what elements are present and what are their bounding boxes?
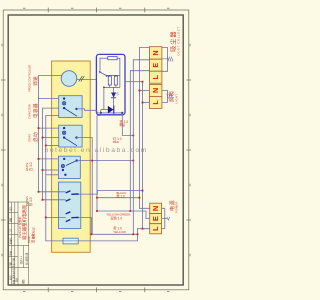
svg-text:E: E <box>151 216 160 221</box>
svg-text:L: L <box>151 226 160 231</box>
wire black lower segment <box>97 197 139 199</box>
zone dash left b <box>1 114 3 117</box>
switch S2 (on PCB) <box>99 71 101 73</box>
relay K2 (speed tap switch 2) <box>59 125 82 147</box>
junction dot fuse riser <box>137 233 139 235</box>
junction dot yg left <box>96 210 98 212</box>
zone divider right 1 <box>186 79 191 81</box>
svg-text:调速: 调速 <box>32 76 39 86</box>
svg-text:hotebei.en.alibaba.com: hotebei.en.alibaba.com <box>45 147 148 154</box>
stub relay2 low <box>46 145 59 147</box>
svg-text:白 1.0: 白 1.0 <box>28 162 33 171</box>
zone dash bottom d <box>167 291 170 293</box>
zone divider right 2 <box>186 149 191 151</box>
zone dash left d <box>1 254 3 256</box>
stub relay3 top <box>39 158 59 160</box>
junction dot switch stub1 <box>38 191 40 193</box>
sheet background <box>0 0 193 300</box>
outer border frame <box>3 10 189 290</box>
junction dot yg mid <box>129 210 131 212</box>
svg-text:L: L <box>151 74 160 79</box>
zone divider bottom 3 <box>144 287 146 292</box>
stub relay1 top <box>39 98 59 100</box>
junction dot pole2/W3 <box>45 217 47 219</box>
zone dash top d <box>167 7 170 9</box>
wire switch pole1 to mains N (BLACK) <box>78 191 143 195</box>
svg-text:启动: 启动 <box>32 132 39 142</box>
svg-text:共1张第1张: 共1张第1张 <box>24 252 28 265</box>
junction dot left 1 <box>38 127 40 129</box>
cord squiggle <box>167 217 170 220</box>
svg-text:吸尘器整机电路图: 吸尘器整机电路图 <box>21 204 28 240</box>
wire bottom rail of resistors <box>104 75 120 87</box>
zone dash bottom c <box>119 291 122 293</box>
wire N1 down bus <box>139 48 149 209</box>
PCB terminal P1 (bottom left) <box>100 112 102 114</box>
relay K3 (start switch) <box>58 156 80 178</box>
earth symbol J1 <box>162 57 173 62</box>
label wire blue2 <box>27 234 35 243</box>
socket bracket J1 <box>162 48 168 72</box>
relay K1 (speed tap switch 1) <box>59 96 82 118</box>
zone dash bottom a <box>23 291 26 293</box>
junction dot relay3 wire <box>91 160 93 162</box>
terminal block J3 (power input) <box>150 203 162 234</box>
earth symbol J2 <box>167 94 173 99</box>
zone dash right c <box>189 184 191 187</box>
junction dot bus B <box>132 135 134 137</box>
svg-text:SPEED CONTROLLER: SPEED CONTROLLER <box>28 65 32 92</box>
label dust collector <box>169 26 180 55</box>
terminal block J1 (dust collector socket) <box>149 47 162 83</box>
svg-text:ZW12-25 型整机: ZW12-25 型整机 <box>17 217 22 238</box>
LED D1 <box>111 93 116 98</box>
svg-text:LIGHT: LIGHT <box>174 94 178 104</box>
resistor R3 (vertical) <box>114 76 117 85</box>
junction dot switch-out <box>142 190 144 192</box>
junction dot left 5 <box>45 145 47 147</box>
wire yellow-green to E <box>97 211 150 219</box>
zone dash right b <box>189 114 191 117</box>
svg-text:RED: RED <box>113 140 119 144</box>
wire PCB left leg down <box>97 113 101 211</box>
PCB terminal P2 (bottom right) <box>121 112 123 114</box>
title block table <box>8 202 29 285</box>
label wire white <box>25 162 33 171</box>
svg-text:双色 1.0: 双色 1.0 <box>111 215 123 220</box>
svg-text:电容器: 电容器 <box>32 103 39 118</box>
svg-text:E: E <box>151 63 160 68</box>
junction dot N2 <box>139 90 141 92</box>
wire relay2 out <box>77 138 93 235</box>
label power <box>169 200 179 213</box>
junction dot L2 <box>142 102 144 104</box>
stub relay2 top <box>39 127 59 129</box>
junction dot black right <box>139 197 141 199</box>
junction dot on PCB <box>103 86 105 88</box>
wire N2 stub <box>139 90 149 92</box>
label start <box>28 132 39 142</box>
junction dot relay3-busB <box>132 160 134 162</box>
junction dot PCB stub <box>142 81 144 83</box>
resistor R2 (vertical) <box>108 76 111 85</box>
wire L bus down <box>143 82 150 229</box>
wire PCB stub to bus <box>128 81 143 83</box>
stub relay2 mid <box>43 137 59 139</box>
label light <box>170 91 179 104</box>
wire PCB bottom rail <box>101 110 123 113</box>
wire R1 leads <box>100 58 120 75</box>
inner border frame <box>8 15 183 285</box>
wire relay3 out <box>77 160 134 162</box>
svg-text:制速: 制速 <box>120 123 126 127</box>
junction dot pole2-yellow <box>91 233 93 235</box>
wire switch pole2 down <box>78 217 91 234</box>
wire LED feed <box>113 87 115 92</box>
junction dot L stub <box>142 228 144 230</box>
triac Q1 <box>108 106 114 114</box>
zone divider left 1 <box>1 79 6 81</box>
wire relay1 to PCB <box>77 109 101 113</box>
zone divider right 3 <box>186 219 191 221</box>
zone divider top 3 <box>144 8 146 13</box>
zone dash top c <box>119 7 122 9</box>
zone divider left 2 <box>1 149 6 151</box>
svg-text:图样标记: 图样标记 <box>31 227 36 239</box>
wire right bus B (E1 down) <box>133 60 149 235</box>
stub relay3 low <box>46 174 59 176</box>
svg-text:POWER: POWER <box>175 201 179 213</box>
wire fuse out to L <box>78 229 142 241</box>
zone divider bottom 2 <box>96 287 98 292</box>
resistor R1 (top, horizontal) <box>108 57 117 60</box>
zone dash left a <box>1 44 3 47</box>
junction dot left 4 <box>42 169 44 171</box>
motor unit enclosure (yellow) <box>52 61 91 252</box>
svg-text:CAPACITOR: CAPACITOR <box>28 104 32 119</box>
junction dot switch stub2 <box>42 199 44 201</box>
zone dash right a <box>189 44 191 47</box>
wire top rail <box>107 74 120 77</box>
zone dash top b <box>71 7 74 9</box>
socket bracket J2 <box>162 90 168 102</box>
terminal block J2 (light socket) <box>149 84 162 108</box>
stub switch pole2 <box>46 217 66 219</box>
label capacitor <box>28 103 39 119</box>
main switch S1 (double pole) <box>58 182 80 228</box>
left bus wire W2 <box>43 108 66 200</box>
svg-text:START: START <box>28 133 32 142</box>
power cord bracket <box>162 208 167 228</box>
svg-text:L: L <box>151 100 160 105</box>
zone dash bottom b <box>71 291 74 293</box>
brush symbol on motor wire <box>79 76 85 82</box>
zone divider left 3 <box>1 219 6 221</box>
title block left col text <box>8 206 18 284</box>
svg-text:DUST COLLECT: DUST COLLECT <box>176 26 180 55</box>
svg-text:YELLOW: YELLOW <box>113 230 126 234</box>
stub relay3 mid <box>43 169 59 171</box>
zone dash right d <box>189 254 191 256</box>
wire motor to PCB <box>77 79 97 81</box>
junction dot black left <box>96 197 98 199</box>
junction dot left 3 <box>38 158 40 160</box>
wire right bus A (L1 down) <box>130 71 149 211</box>
label wire brown <box>25 196 33 206</box>
zone dash left c <box>1 184 3 187</box>
wire L2 stub <box>143 102 150 104</box>
left bus wire W3 <box>46 116 63 241</box>
svg-text:N: N <box>151 88 160 93</box>
wire yellow segment <box>92 233 137 235</box>
wire LED to triac <box>104 87 114 109</box>
zone divider top 2 <box>96 8 98 13</box>
zone divider bottom 1 <box>47 287 49 292</box>
junction dot yellow <box>132 233 134 235</box>
svg-text:黑 1.0: 黑 1.0 <box>116 194 125 198</box>
motor M1 (circle) <box>61 71 77 87</box>
svg-text:N: N <box>151 50 160 55</box>
label speed controller <box>28 65 39 92</box>
fuse F1 <box>63 238 78 244</box>
svg-text:N: N <box>151 206 160 211</box>
wire PCB right leg down <box>122 113 133 135</box>
zone divider top 1 <box>47 8 49 13</box>
PCB control board U1 <box>96 54 125 114</box>
junction dot left 2 <box>42 137 44 139</box>
PCB right stub <box>125 81 128 83</box>
zone dash top a <box>23 7 26 9</box>
left bus wire W1 <box>39 76 66 192</box>
